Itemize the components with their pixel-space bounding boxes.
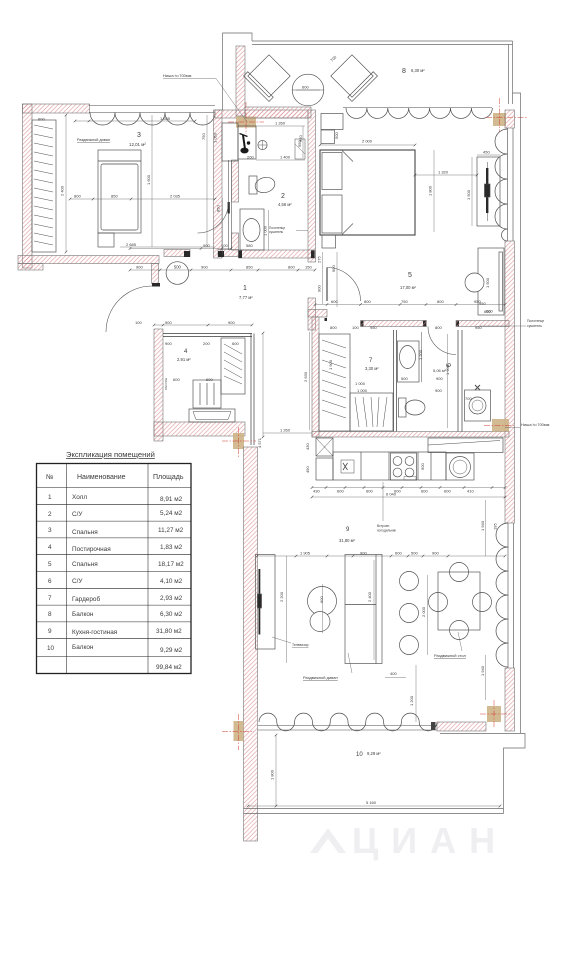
svg-text:2 200: 2 200 xyxy=(279,591,284,602)
svg-text:275: 275 xyxy=(317,256,322,263)
svg-text:С/У: С/У xyxy=(72,578,83,585)
svg-text:100: 100 xyxy=(352,325,359,330)
fridge kitchen xyxy=(316,438,333,456)
svg-text:600: 600 xyxy=(319,596,324,603)
toilet room6 xyxy=(399,398,426,417)
dim room7 row xyxy=(330,325,482,330)
svg-text:900: 900 xyxy=(317,285,322,292)
svg-text:2 000: 2 000 xyxy=(421,606,426,617)
wall rooms 6-7 north xyxy=(308,310,509,327)
wall room7-room6 partition xyxy=(394,330,397,432)
wall right lower hatch xyxy=(505,668,515,731)
wardrobe room5 xyxy=(478,248,504,315)
svg-text:10: 10 xyxy=(356,752,363,758)
svg-text:1 000: 1 000 xyxy=(357,388,368,393)
red axis room4 xyxy=(222,427,256,457)
dim balcony door 1200 vertical xyxy=(415,665,417,722)
dim bath2 850 vertical xyxy=(216,198,223,255)
right outer slab line xyxy=(513,93,521,733)
svg-text:1 600: 1 600 xyxy=(146,174,151,185)
svg-text:1: 1 xyxy=(48,494,52,501)
svg-text:6,30 м²: 6,30 м² xyxy=(411,68,425,73)
balcony8 chair left xyxy=(244,53,293,102)
balcony8 west wall xyxy=(236,46,245,116)
svg-text:2,91 м²: 2,91 м² xyxy=(177,357,191,362)
balcony8 chair right xyxy=(329,53,378,102)
svg-text:450: 450 xyxy=(483,150,490,155)
window room9 east xyxy=(496,523,514,668)
wall top-left band room 3 xyxy=(23,104,90,113)
svg-text:850: 850 xyxy=(216,205,221,212)
svg-text:9,29 м²: 9,29 м² xyxy=(367,751,381,756)
svg-text:800: 800 xyxy=(74,194,81,199)
svg-text:2 400: 2 400 xyxy=(367,591,372,602)
bedside room5 bottom xyxy=(322,235,336,248)
dim balcony10 xyxy=(248,735,500,806)
svg-text:430: 430 xyxy=(313,489,320,494)
wall room7 west xyxy=(312,317,319,437)
svg-text:5: 5 xyxy=(48,561,52,568)
red axis room6 niche xyxy=(484,425,514,427)
label sofa room9 xyxy=(303,653,352,680)
legend title xyxy=(66,450,155,459)
svg-text:1 260: 1 260 xyxy=(280,428,291,433)
wall bath2 west narrow xyxy=(229,160,232,250)
svg-text:17,00 м²: 17,00 м² xyxy=(400,285,417,290)
svg-text:1 320: 1 320 xyxy=(438,170,449,175)
svg-text:1 000: 1 000 xyxy=(355,381,366,386)
svg-text:600: 600 xyxy=(444,489,451,494)
window room 3 north xyxy=(89,106,215,126)
svg-text:1 050: 1 050 xyxy=(213,132,218,143)
svg-text:4 571: 4 571 xyxy=(257,437,262,448)
label niche right xyxy=(505,422,550,428)
svg-text:1: 1 xyxy=(243,285,247,292)
svg-text:4: 4 xyxy=(48,544,52,551)
svg-text:Раздвижной стол: Раздвижной стол xyxy=(434,653,467,658)
svg-text:600: 600 xyxy=(337,489,344,494)
dimension tick marks xyxy=(65,114,507,808)
label table room9 xyxy=(434,632,467,658)
svg-text:900: 900 xyxy=(228,320,235,325)
balcony10 slab step xyxy=(440,734,525,814)
poufs room9 xyxy=(308,587,337,632)
svg-text:холодильник: холодильник xyxy=(377,529,397,533)
dim kitchen total xyxy=(312,492,505,498)
svg-text:1 500: 1 500 xyxy=(485,277,490,288)
niche tan right top xyxy=(493,113,506,126)
kitchen cabinet left xyxy=(316,458,333,480)
bed room3 xyxy=(98,150,141,233)
dim room6 inner xyxy=(401,334,472,428)
label room 3 xyxy=(129,132,146,147)
svg-text:10: 10 xyxy=(47,645,55,652)
svg-text:1 500: 1 500 xyxy=(466,189,471,200)
svg-text:1 635: 1 635 xyxy=(160,116,171,121)
wardrobe room3 xyxy=(32,120,56,252)
door arc bath2 xyxy=(198,202,229,233)
svg-text:800: 800 xyxy=(435,325,442,330)
wall room4 north xyxy=(163,334,252,337)
balcony8 table xyxy=(292,74,324,106)
washer dryer room4 xyxy=(193,380,221,408)
svg-text:Телевизор: Телевизор xyxy=(292,643,309,647)
svg-text:900: 900 xyxy=(165,341,172,346)
svg-text:950: 950 xyxy=(370,325,377,330)
tv console room5 xyxy=(477,157,500,226)
dim bath2 950 vertical xyxy=(297,126,303,158)
dim room5 1500 vertical xyxy=(466,157,472,226)
dim balcony8 700 xyxy=(329,54,338,63)
svg-text:Кухня-гостиная: Кухня-гостиная xyxy=(72,629,118,636)
svg-text:1 900: 1 900 xyxy=(328,359,333,370)
label niche top xyxy=(163,73,247,122)
svg-text:600: 600 xyxy=(421,489,428,494)
dim bath2 580 xyxy=(246,243,253,248)
svg-text:500: 500 xyxy=(334,132,339,139)
svg-text:750: 750 xyxy=(201,133,206,140)
dim kitchen row xyxy=(312,488,505,494)
wardrobe room7 bottom xyxy=(350,393,393,431)
balcony10 floor lines xyxy=(244,809,504,814)
svg-text:600: 600 xyxy=(232,341,239,346)
bedside room3 xyxy=(98,233,114,247)
svg-text:950: 950 xyxy=(475,325,482,330)
wall right upper hatch xyxy=(505,110,515,128)
svg-text:Ниша h=700мм: Ниша h=700мм xyxy=(163,73,192,78)
bed room5 xyxy=(320,150,415,235)
svg-text:850: 850 xyxy=(246,265,253,270)
svg-text:500: 500 xyxy=(411,551,418,556)
vent shaft bath2 xyxy=(295,139,305,159)
svg-text:200: 200 xyxy=(247,155,254,160)
svg-text:750: 750 xyxy=(401,299,408,304)
balcony8 outer slab xyxy=(223,33,513,110)
svg-text:1 800: 1 800 xyxy=(428,185,433,196)
wall room4 east xyxy=(251,334,254,446)
dim hall 4571 vertical xyxy=(257,333,263,448)
watermark cian xyxy=(310,820,508,861)
toilet bath2 xyxy=(249,175,277,195)
label room 1 xyxy=(239,285,253,300)
svg-text:6 040: 6 040 xyxy=(386,492,397,497)
wall hall north right segment xyxy=(218,250,239,258)
svg-text:2 685: 2 685 xyxy=(126,242,137,247)
svg-text:900: 900 xyxy=(203,243,210,248)
wardrobe room7 hatch left xyxy=(319,334,350,431)
window balcony10 xyxy=(258,713,437,731)
dim room3 left vertical xyxy=(60,115,67,252)
label room 7 xyxy=(365,358,379,371)
svg-text:1 905: 1 905 xyxy=(300,551,311,556)
svg-text:5,24 м2: 5,24 м2 xyxy=(160,510,183,517)
svg-text:1 200: 1 200 xyxy=(418,349,423,360)
label room 2 xyxy=(278,193,292,207)
sofa room9 xyxy=(345,555,382,664)
svg-text:2 630: 2 630 xyxy=(303,371,308,382)
svg-text:1 260: 1 260 xyxy=(275,121,286,126)
legend header xyxy=(46,474,184,481)
svg-text:2,93 м2: 2,93 м2 xyxy=(160,595,183,602)
svg-text:2: 2 xyxy=(281,193,285,200)
pier block balcony8 xyxy=(321,114,343,130)
drain circle bath2 xyxy=(258,140,267,149)
svg-text:Раздвижной диван: Раздвижной диван xyxy=(303,675,338,680)
dim balcony8 600 xyxy=(296,85,320,91)
chairs column room9 xyxy=(400,572,419,655)
dim hall row2 xyxy=(130,265,315,271)
svg-text:900: 900 xyxy=(436,376,443,381)
dim room3 1050 vertical xyxy=(213,132,218,143)
niche tan room6 xyxy=(492,419,509,432)
dim room5 1320 xyxy=(415,170,477,176)
dim room5 2000 xyxy=(320,139,415,146)
dim bath2 1400 xyxy=(247,155,305,161)
svg-text:СМ СУШ: СМ СУШ xyxy=(164,378,168,390)
label fridge xyxy=(377,482,397,533)
svg-text:№: № xyxy=(46,474,54,481)
svg-text:600: 600 xyxy=(173,377,180,382)
svg-text:Спальня: Спальня xyxy=(72,529,98,536)
dim room5 450 xyxy=(477,150,500,156)
wall bath2 east lower xyxy=(308,298,316,330)
shower bath2 xyxy=(222,123,256,161)
label laundry room4 xyxy=(164,378,168,390)
tv cabinet room9 xyxy=(256,555,276,650)
dim room5 bedside xyxy=(298,132,339,142)
svg-text:100: 100 xyxy=(135,320,142,325)
stove xyxy=(391,453,417,480)
svg-text:3: 3 xyxy=(48,527,52,534)
svg-text:900: 900 xyxy=(136,265,143,270)
window balcony8 south xyxy=(343,108,492,119)
label room 5 xyxy=(400,272,417,290)
column 500 xyxy=(166,262,189,285)
door arc room5 xyxy=(327,268,361,302)
svg-text:8,91 м2: 8,91 м2 xyxy=(160,496,183,503)
svg-text:31,80 м2: 31,80 м2 xyxy=(156,628,182,635)
svg-text:Гардероб: Гардероб xyxy=(72,595,100,603)
svg-text:5: 5 xyxy=(408,272,412,279)
dim room4 top xyxy=(135,320,252,325)
svg-text:Постирочная: Постирочная xyxy=(72,546,111,553)
red axis mark niche top xyxy=(228,102,264,134)
label towel bath2 xyxy=(269,226,308,234)
window room5 east xyxy=(495,128,513,241)
svg-text:900: 900 xyxy=(435,388,442,393)
svg-text:900: 900 xyxy=(331,265,336,272)
wall bath2 south xyxy=(239,250,316,258)
svg-text:Площадь: Площадь xyxy=(153,474,184,481)
svg-text:600: 600 xyxy=(420,463,425,470)
svg-text:1 940: 1 940 xyxy=(480,520,485,531)
svg-text:600: 600 xyxy=(206,377,213,382)
svg-text:600: 600 xyxy=(38,117,45,122)
svg-text:5 160: 5 160 xyxy=(366,800,377,805)
svg-text:600: 600 xyxy=(331,299,338,304)
svg-text:2: 2 xyxy=(48,511,52,518)
dim room5 vertical 900-275 xyxy=(317,252,323,304)
svg-text:сушитель: сушитель xyxy=(269,230,283,234)
washbasin room6 xyxy=(398,332,422,382)
dim room3 right vertical xyxy=(146,115,207,247)
svg-text:Встроен.: Встроен. xyxy=(377,524,390,528)
door arc rooms67 corridor xyxy=(428,327,456,355)
svg-text:800: 800 xyxy=(364,299,371,304)
svg-text:3: 3 xyxy=(137,132,141,139)
label room 4 xyxy=(177,349,191,362)
svg-text:Раздвижной диван: Раздвижной диван xyxy=(77,138,110,142)
wall room4 west xyxy=(154,329,163,441)
svg-text:900: 900 xyxy=(360,551,367,556)
svg-text:500: 500 xyxy=(174,265,182,270)
dim hall 900 vertical xyxy=(331,252,337,307)
svg-text:600: 600 xyxy=(366,489,373,494)
svg-text:9,29 м2: 9,29 м2 xyxy=(160,647,183,654)
dim hall 2630 vertical xyxy=(303,332,310,430)
wall room4 south xyxy=(154,422,245,436)
niche tan balcony10 left xyxy=(234,721,244,741)
kitchen sink x xyxy=(341,460,354,473)
niche tan room4 xyxy=(233,433,244,449)
dim room7 inner xyxy=(328,359,368,393)
dim room3 top xyxy=(38,116,195,122)
dim hall row1 xyxy=(130,243,231,249)
door arc room 3 xyxy=(106,286,152,332)
svg-text:900: 900 xyxy=(165,320,172,325)
svg-text:1,83 м2: 1,83 м2 xyxy=(160,544,183,551)
svg-text:2 000: 2 000 xyxy=(362,139,373,144)
label room 9 xyxy=(339,527,356,543)
svg-text:410: 410 xyxy=(467,489,474,494)
svg-text:С/У: С/У xyxy=(72,511,83,518)
svg-text:150: 150 xyxy=(305,265,312,270)
dim room5 wardrobe xyxy=(479,277,491,314)
dim room3 mid row xyxy=(70,194,215,200)
svg-text:3,30 м²: 3,30 м² xyxy=(365,366,379,371)
svg-text:Экспликация помещений: Экспликация помещений xyxy=(66,450,155,459)
svg-text:ЦИАН: ЦИАН xyxy=(352,820,508,861)
svg-text:1 200: 1 200 xyxy=(409,695,414,706)
wall bath2 top band xyxy=(215,110,308,118)
label room 6 xyxy=(433,363,453,373)
svg-text:800: 800 xyxy=(288,265,295,270)
wall room6 inner partition xyxy=(458,330,462,432)
shelving room4 xyxy=(221,338,245,394)
svg-text:1 940: 1 940 xyxy=(480,665,485,676)
dim room3 bottom xyxy=(120,242,215,247)
chair room5 xyxy=(465,273,484,292)
svg-text:600: 600 xyxy=(395,551,402,556)
dim bath2 1260 xyxy=(256,121,305,127)
svg-text:1 400: 1 400 xyxy=(280,155,291,160)
niche tan bottom right xyxy=(487,706,501,722)
wall rooms67 south / kitchen north xyxy=(312,432,509,438)
wall jamb ticks xyxy=(239,251,460,327)
label divan room3 xyxy=(77,138,110,142)
svg-text:31,80 м²: 31,80 м² xyxy=(339,538,356,543)
svg-text:8: 8 xyxy=(402,68,406,75)
svg-text:950: 950 xyxy=(474,299,481,304)
svg-text:Ниша h=700мм: Ниша h=700мм xyxy=(521,422,550,427)
svg-text:600: 600 xyxy=(302,85,309,90)
dim room5 1100 vertical xyxy=(428,150,435,232)
svg-text:Наименование: Наименование xyxy=(77,474,126,481)
svg-text:850: 850 xyxy=(111,194,118,199)
label towel right xyxy=(480,319,544,328)
wall bottom left section xyxy=(18,256,159,271)
svg-text:4,56 м²: 4,56 м² xyxy=(278,202,292,207)
balcony8 south band xyxy=(245,107,311,118)
dim room9 verticals xyxy=(279,500,486,706)
label tv room9 xyxy=(272,637,309,647)
svg-text:580: 580 xyxy=(246,243,253,248)
svg-text:Полотенце: Полотенце xyxy=(527,319,544,323)
wall room3-bath vertical xyxy=(214,110,223,258)
svg-text:800: 800 xyxy=(330,325,337,330)
drawer room4 xyxy=(189,409,235,422)
legend table grid xyxy=(37,464,192,674)
red axis right top xyxy=(486,98,528,132)
dim room9 bottom 400 xyxy=(385,671,406,678)
dim 1260 room4 xyxy=(263,428,312,434)
svg-text:800: 800 xyxy=(437,299,444,304)
svg-text:7: 7 xyxy=(48,595,52,602)
bedside room5 top xyxy=(321,130,335,144)
svg-text:99,84 м2: 99,84 м2 xyxy=(156,664,182,671)
svg-text:сушитель: сушитель xyxy=(527,324,542,328)
svg-text:1 800: 1 800 xyxy=(270,769,275,780)
label room 8 xyxy=(402,68,425,75)
svg-text:9: 9 xyxy=(48,628,52,635)
svg-text:2 035: 2 035 xyxy=(170,194,181,199)
svg-text:700: 700 xyxy=(465,396,472,401)
svg-text:430: 430 xyxy=(305,443,310,450)
svg-text:18,17 м2: 18,17 м2 xyxy=(158,561,184,568)
niche tan top xyxy=(236,117,256,128)
svg-text:Балкон: Балкон xyxy=(72,644,94,651)
svg-text:12,01 м²: 12,01 м² xyxy=(129,142,146,147)
kitchen island top right xyxy=(428,438,503,453)
svg-text:8: 8 xyxy=(48,611,52,618)
svg-text:950: 950 xyxy=(298,135,303,142)
svg-text:195: 195 xyxy=(493,523,498,530)
wall left exterior room 3 xyxy=(23,104,33,268)
red axis balcony10 left xyxy=(222,714,254,750)
svg-text:11,27 м2: 11,27 м2 xyxy=(158,527,184,534)
washbasin bath2 xyxy=(240,209,264,250)
svg-text:200: 200 xyxy=(203,341,210,346)
wall right mid hatch xyxy=(505,241,515,523)
svg-text:490: 490 xyxy=(305,466,310,473)
door leaf room 3 xyxy=(152,264,161,287)
legend rows xyxy=(47,494,184,671)
dim bath2 1000 vertical xyxy=(263,210,269,250)
red axis bottom right xyxy=(480,700,512,728)
svg-text:6,30 м2: 6,30 м2 xyxy=(160,611,183,618)
svg-text:1 000: 1 000 xyxy=(263,225,268,236)
svg-text:900: 900 xyxy=(201,265,208,270)
door leaf bath2 xyxy=(228,202,230,214)
dim room4 inner xyxy=(165,341,239,382)
kitchen counter xyxy=(333,452,446,480)
svg-text:900: 900 xyxy=(432,551,439,556)
svg-text:400: 400 xyxy=(390,671,397,676)
svg-text:600: 600 xyxy=(486,309,493,314)
svg-text:4,10 м2: 4,10 м2 xyxy=(160,578,183,585)
svg-text:6: 6 xyxy=(48,578,52,585)
wall bath2 west hatch xyxy=(232,160,239,250)
